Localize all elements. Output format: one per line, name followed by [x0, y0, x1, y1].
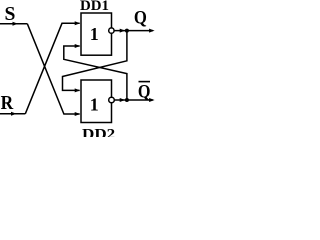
wire feedback Q-bar to DD1 input 2	[64, 46, 127, 100]
wire feedback Q to DD2 input 1	[63, 31, 127, 91]
arrow Q line end	[149, 29, 155, 33]
gate DD2 box	[81, 80, 112, 123]
arrow DD1 pin input 1	[75, 21, 81, 25]
svg-text:1: 1	[90, 94, 99, 114]
junction node Q-bar	[125, 98, 129, 102]
svg-text:S: S	[5, 3, 16, 25]
wire Q-bar output	[114, 99, 152, 101]
wire S input horizontal	[0, 23, 27, 25]
arrow DD2 pin input 1	[75, 88, 81, 92]
junction node Q	[125, 29, 129, 33]
svg-text:Q: Q	[138, 81, 151, 102]
gate DD1 box	[81, 13, 112, 55]
inverter bubble DD1 output	[109, 28, 114, 33]
svg-text:DD1: DD1	[80, 0, 109, 14]
svg-text:DD2: DD2	[82, 126, 115, 137]
overline of Q-bar	[139, 81, 151, 83]
wire S diagonal to DD2 input 2	[27, 24, 79, 114]
wire R diagonal to DD1 input 1	[25, 23, 79, 114]
wire R input horizontal	[0, 113, 25, 115]
arrow DD1 pin input 2	[75, 44, 81, 48]
svg-text:R: R	[1, 93, 14, 114]
arrow after DD1 bubble	[120, 29, 126, 33]
inverter bubble DD2 output	[109, 97, 115, 103]
wire Q output	[114, 30, 153, 32]
arrow on R wire	[11, 112, 17, 116]
arrow on S wire	[13, 22, 19, 26]
arrow DD2 pin input 2	[75, 112, 81, 116]
svg-text:1: 1	[90, 24, 99, 44]
svg-text:Q: Q	[134, 7, 147, 28]
arrow after DD2 bubble	[120, 98, 126, 102]
arrow Q-bar line end	[149, 98, 155, 102]
